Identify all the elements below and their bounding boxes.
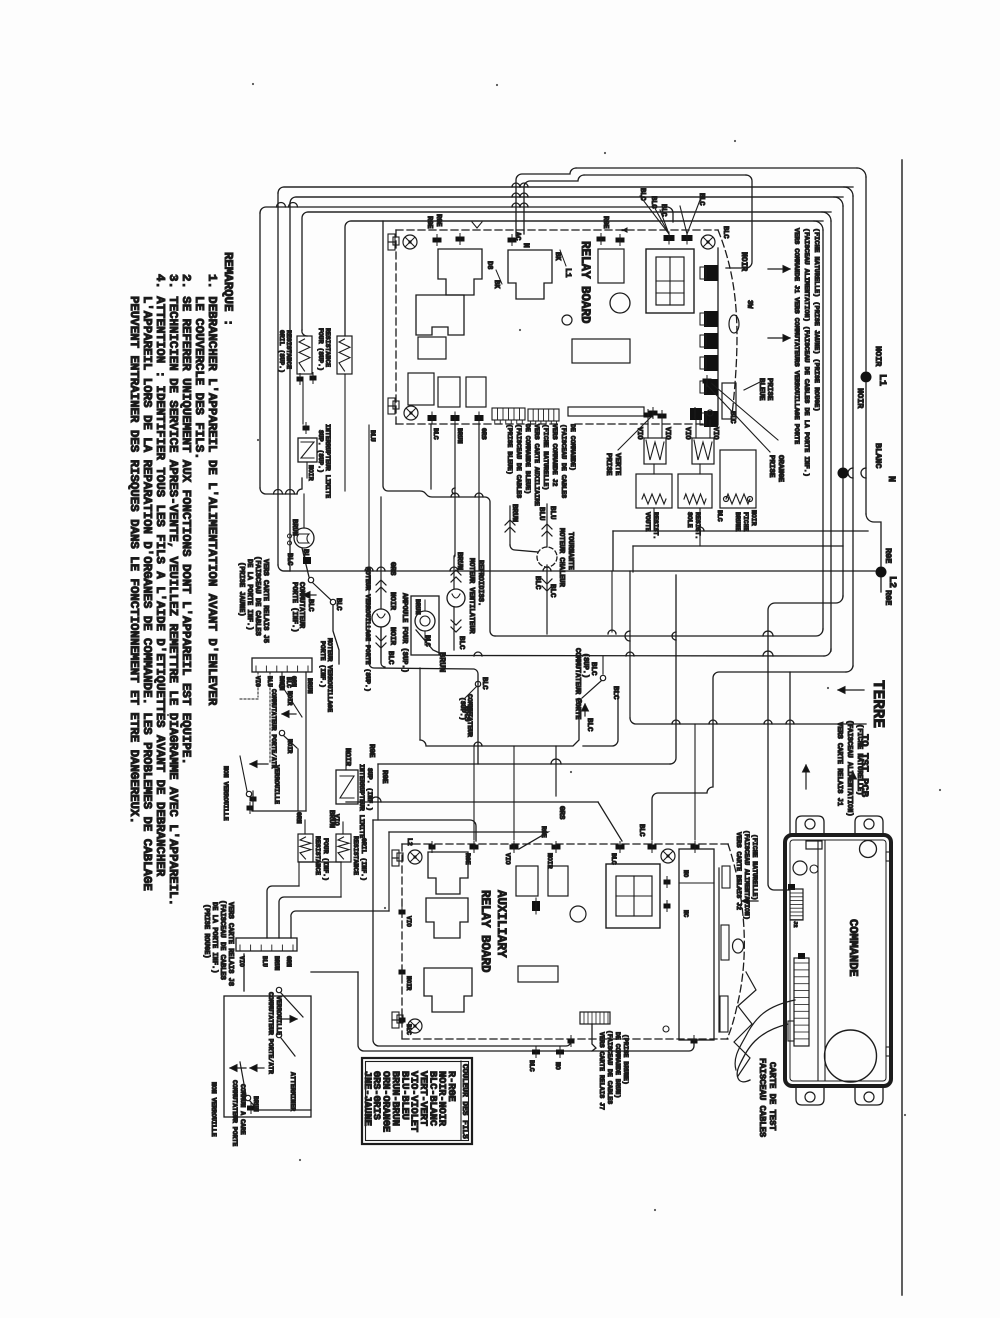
svg-text:RESISTANCE: RESISTANCE xyxy=(314,836,321,875)
svg-text:NON VERROUILLE: NON VERROUILLE xyxy=(222,766,229,821)
svg-text:L2: L2 xyxy=(406,838,413,846)
svg-text:BLC: BLC xyxy=(480,677,488,690)
svg-text:NOIR: NOIR xyxy=(739,252,748,271)
svg-text:BLC: BLC xyxy=(728,411,736,424)
svg-text:BLC: BLC xyxy=(285,553,293,566)
svg-text:NOIR: NOIR xyxy=(286,739,293,754)
svg-text:BLU: BLU xyxy=(261,956,268,967)
svg-text:VOUTE: VOUTE xyxy=(644,512,651,532)
svg-text:VERROUILLE: VERROUILLE xyxy=(273,765,280,804)
svg-text:BLC: BLC xyxy=(432,428,439,440)
svg-text:MOTEUR VERROUILLAGE PORTE (SUP: MOTEUR VERROUILLAGE PORTE (SUP.) xyxy=(364,567,371,692)
svg-text:(FAISCEAU ALIMENTATION) (FAISC: (FAISCEAU ALIMENTATION) (FAISCEAU DE CAB… xyxy=(802,228,810,477)
svg-text:COMMUTATEUR PORTE/ATR: COMMUTATEUR PORTE/ATR xyxy=(270,689,277,769)
svg-text:RGE: RGE xyxy=(434,214,442,227)
svg-text:(FAISCEAU DE CABLES: (FAISCEAU DE CABLES xyxy=(606,1030,613,1104)
svg-text:FOUR (SUP.): FOUR (SUP.) xyxy=(317,328,324,371)
svg-text:SUP. (INF.): SUP. (INF.) xyxy=(366,768,373,811)
svg-text:L1: L1 xyxy=(563,268,572,278)
svg-text:BRUN: BRUN xyxy=(306,678,313,694)
svg-text:VERS CARTE AUXILIAIRE: VERS CARTE AUXILIAIRE xyxy=(533,424,540,506)
svg-text:(FAISCEAU ALIMENTATION): (FAISCEAU ALIMENTATION) xyxy=(743,830,750,920)
svg-text:GRS: GRS xyxy=(388,562,396,576)
svg-text:MOTEUR VENTILATEUR: MOTEUR VENTILATEUR xyxy=(467,558,475,634)
svg-text:L1: L1 xyxy=(876,374,887,386)
svg-text:N: N xyxy=(885,476,896,482)
svg-text:BRUN: BRUN xyxy=(273,956,280,971)
svg-text:BRUN: BRUN xyxy=(456,428,463,444)
svg-text:JNE-JAUNE: JNE-JAUNE xyxy=(361,1071,372,1126)
svg-text:VIO: VIO xyxy=(663,427,671,440)
svg-text:RESISTANCE: RESISTANCE xyxy=(285,330,292,369)
svg-text:MOTEUR CHALEUR: MOTEUR CHALEUR xyxy=(557,528,565,588)
svg-text:VERTE: VERTE xyxy=(613,453,621,476)
svg-text:VERROUILLE: VERROUILLE xyxy=(275,996,282,1035)
svg-text:RELAY BOARD: RELAY BOARD xyxy=(478,890,492,973)
svg-text:NOIR: NOIR xyxy=(405,976,412,991)
svg-text:DE LA PORTE INF.): DE LA PORTE INF.) xyxy=(245,559,253,630)
svg-text:NO: NO xyxy=(682,870,689,878)
svg-text:FAISCEAU CABLES: FAISCEAU CABLES xyxy=(757,1058,767,1137)
svg-text:COMMANDE: COMMANDE xyxy=(846,919,860,977)
svg-text:(PRISE JAUNE): (PRISE JAUNE) xyxy=(237,562,245,617)
svg-text:BLC: BLC xyxy=(405,1024,412,1035)
svg-text:3W: 3W xyxy=(745,300,753,309)
svg-text:BLC: BLC xyxy=(721,226,729,239)
svg-text:PRISE: PRISE xyxy=(604,453,612,476)
svg-text:RELAY BOARD: RELAY BOARD xyxy=(578,241,592,324)
svg-text:DE COMMANDE): DE COMMANDE) xyxy=(569,424,576,471)
svg-text:BLC: BLC xyxy=(589,662,597,676)
svg-text:GRN: GRN xyxy=(295,812,302,824)
svg-text:VIO: VIO xyxy=(711,427,719,440)
svg-text:PRISE: PRISE xyxy=(765,378,773,401)
svg-text:NOIR: NOIR xyxy=(873,346,883,367)
svg-text:BLC: BLC xyxy=(548,584,556,598)
svg-text:INTERRUPTEUR LIMITE: INTERRUPTEUR LIMITE xyxy=(358,764,365,838)
svg-text:PORTE (INF.): PORTE (INF.) xyxy=(319,641,326,688)
svg-text:2. SE REFERER UNIQUEMENT AUX: 2. SE REFERER UNIQUEMENT AUX FONCTIONS D… xyxy=(179,274,193,765)
svg-text:GRIL (SUP.): GRIL (SUP.) xyxy=(278,330,285,373)
svg-text:BLU: BLU xyxy=(369,430,376,442)
svg-text:GRS: GRS xyxy=(557,806,565,820)
svg-text:COMMUTATEUR PORTE: COMMUTATEUR PORTE xyxy=(231,1080,238,1146)
svg-text:NOIR: NOIR xyxy=(343,748,351,767)
svg-text:BRUN: BRUN xyxy=(455,552,463,570)
svg-text:(SUP.): (SUP.) xyxy=(581,653,589,678)
svg-text:1. DEBRANCHER L'APPAREIL DE L: 1. DEBRANCHER L'APPAREIL DE L'ALIMENTATI… xyxy=(205,274,219,706)
svg-text:BLC: BLC xyxy=(610,853,617,865)
svg-text:BRUN: BRUN xyxy=(414,599,421,615)
svg-text:TOURNANTE: TOURNANTE xyxy=(566,532,574,570)
svg-text:NOIR: NOIR xyxy=(388,592,396,611)
svg-text:BLC: BLC xyxy=(306,599,314,612)
svg-text:3. TECHNICIEN DE SERVICE APRE: 3. TECHNICIEN DE SERVICE APRES-VENTE, VE… xyxy=(166,274,180,906)
svg-text:BLC: BLC xyxy=(285,677,292,688)
svg-text:(FAISCEAU ALIMENTATION): (FAISCEAU ALIMENTATION) xyxy=(845,720,853,817)
svg-text:FOUR (INF.): FOUR (INF.) xyxy=(322,838,329,881)
svg-text:GRIL (INF.): GRIL (INF.) xyxy=(360,838,367,881)
svg-text:INTERRUPTEUR LIMITE: INTERRUPTEUR LIMITE xyxy=(324,424,331,498)
svg-text:GRS: GRS xyxy=(480,428,487,440)
svg-text:RESISTANCE: RESISTANCE xyxy=(324,328,331,367)
svg-text:RGE: RGE xyxy=(883,590,893,605)
svg-text:BLANC: BLANC xyxy=(873,443,883,469)
svg-text:REFROIDISS.: REFROIDISS. xyxy=(476,560,484,606)
svg-text:VERS CARTE RELAIS J7: VERS CARTE RELAIS J7 xyxy=(598,1032,605,1110)
svg-text:RGE: RGE xyxy=(540,826,547,838)
svg-text:COMMUTATEUR PORTE/ATR: COMMUTATEUR PORTE/ATR xyxy=(267,992,274,1074)
svg-text:GRN: GRN xyxy=(285,956,292,967)
svg-text:FICHE: FICHE xyxy=(742,512,749,532)
svg-text:DE LA PORTE INF.): DE LA PORTE INF.) xyxy=(210,902,218,973)
svg-text:PRISE: PRISE xyxy=(767,455,775,478)
svg-text:DE COMMANDE BRUN): DE COMMANDE BRUN) xyxy=(614,1032,621,1098)
svg-text:NOIR: NOIR xyxy=(388,627,396,646)
svg-text:BLC: BLC xyxy=(334,598,342,611)
svg-text:J2: J2 xyxy=(792,921,799,928)
svg-text:RGE: RGE xyxy=(425,216,433,229)
svg-text:RGE: RGE xyxy=(601,216,609,229)
svg-text:LE COUVERCLE DES FILS.: LE COUVERCLE DES FILS. xyxy=(192,296,206,460)
svg-text:RGE: RGE xyxy=(367,744,375,758)
svg-text:TERRE: TERRE xyxy=(869,680,887,728)
svg-text:PORTE (INF.): PORTE (INF.) xyxy=(290,582,298,632)
svg-text:ATTERMINER: ATTERMINER xyxy=(289,1072,296,1111)
svg-text:(FAISCEAU DE CABLES: (FAISCEAU DE CABLES xyxy=(560,424,567,498)
svg-text:AUXILIARY: AUXILIARY xyxy=(494,890,508,958)
svg-text:BLU: BLU xyxy=(537,507,545,521)
svg-text:BK: BK xyxy=(492,280,500,289)
svg-text:DE COMMANDE BLEUE): DE COMMANDE BLEUE) xyxy=(524,424,531,494)
svg-text:BK: BK xyxy=(553,252,561,261)
svg-text:VIO: VIO xyxy=(405,916,412,927)
svg-text:(FICHE NATURELLE) (PRISE JAUN: (FICHE NATURELLE) (PRISE JAUNE) (PRISE R… xyxy=(812,228,820,412)
svg-text:COMMUTATEUR PORTE: COMMUTATEUR PORTE xyxy=(573,648,581,719)
svg-text:(FAISCEAU DE CABLES: (FAISCEAU DE CABLES xyxy=(218,900,226,980)
svg-text:ORANGE: ORANGE xyxy=(776,455,784,483)
svg-text:BRUN: BRUN xyxy=(290,519,298,536)
svg-text:BRUN: BRUN xyxy=(437,652,447,672)
svg-text:Y: Y xyxy=(619,228,627,233)
svg-text:NC: NC xyxy=(682,910,689,918)
svg-text:CARTE DE TEST: CARTE DE TEST xyxy=(767,1062,777,1131)
svg-text:PEUVENT ENTRAINER DES RISQUES: PEUVENT ENTRAINER DES RISQUES DANS LE FO… xyxy=(127,296,141,824)
svg-text:RESIST.: RESIST. xyxy=(652,512,659,539)
svg-text:BRUN: BRUN xyxy=(252,1096,259,1112)
svg-text:(FICHE NATURELLE): (FICHE NATURELLE) xyxy=(751,834,758,900)
svg-text:L2: L2 xyxy=(886,576,897,588)
svg-text:NOIR: NOIR xyxy=(855,388,865,409)
svg-text:RGE: RGE xyxy=(883,548,893,563)
svg-text:NOIR: NOIR xyxy=(286,691,293,706)
svg-text:NOIR: NOIR xyxy=(307,465,314,481)
svg-text:SUP. (SUP.): SUP. (SUP.) xyxy=(317,430,324,473)
svg-text:VERS CARTE RELAIS J1: VERS CARTE RELAIS J1 xyxy=(835,722,843,806)
svg-text:D8: D8 xyxy=(485,261,493,269)
svg-text:(PRISE BRUNE): (PRISE BRUNE) xyxy=(622,1034,629,1085)
svg-text:RGE: RGE xyxy=(464,853,471,865)
svg-text:VERS CARTE RELAIS J8: VERS CARTE RELAIS J8 xyxy=(226,902,234,986)
svg-text:VERS CARTE RELAIS J2: VERS CARTE RELAIS J2 xyxy=(735,832,742,910)
svg-text:SOLE: SOLE xyxy=(686,512,693,528)
svg-text:BLC: BLC xyxy=(386,651,394,665)
svg-text:VERS COMMANDE J2: VERS COMMANDE J2 xyxy=(551,424,558,487)
svg-text:VERS COMMANDE J1 VERS COMMUTA: VERS COMMANDE J1 VERS COMMUTATEURS VERRO… xyxy=(792,228,800,444)
svg-text:4. ATTENTION : IDENTIFIER TOU: 4. ATTENTION : IDENTIFIER TOUS LES FILS … xyxy=(153,274,167,877)
svg-text:BLC: BLC xyxy=(697,193,705,206)
svg-text:COMMUN A CARE: COMMUN A CARE xyxy=(239,1084,246,1135)
svg-text:BLC: BLC xyxy=(585,718,593,732)
svg-text:GRS: GRS xyxy=(462,706,472,721)
svg-text:VIO: VIO xyxy=(333,814,340,826)
svg-text:NO: NO xyxy=(554,1062,561,1070)
svg-text:BLC: BLC xyxy=(716,510,723,522)
svg-text:MOTEUR VERROUILLAGE: MOTEUR VERROUILLAGE xyxy=(326,638,333,712)
svg-text:(FICHE NATURELLE): (FICHE NATURELLE) xyxy=(542,424,549,490)
svg-text:BLC: BLC xyxy=(649,196,657,209)
svg-text:AMPOULE FOUR (SUP.): AMPOULE FOUR (SUP.) xyxy=(400,593,408,673)
svg-text:(PRISE ROUGE): (PRISE ROUGE) xyxy=(202,904,210,959)
svg-text:RGE: RGE xyxy=(380,770,388,784)
svg-text:REMARQUE :: REMARQUE : xyxy=(221,252,235,326)
svg-text:BLC: BLC xyxy=(638,188,646,201)
svg-text:BLC: BLC xyxy=(637,824,645,837)
svg-text:VIO: VIO xyxy=(683,427,691,440)
svg-text:BLC: BLC xyxy=(457,636,465,650)
svg-text:BLC: BLC xyxy=(528,1060,535,1072)
svg-text:NOIR: NOIR xyxy=(546,853,553,869)
svg-text:NON VERROUILLE: NON VERROUILLE xyxy=(210,1082,217,1137)
svg-text:RESISTANCE: RESISTANCE xyxy=(352,836,359,875)
svg-text:BLC: BLC xyxy=(533,576,541,590)
svg-text:N: N xyxy=(521,243,530,248)
svg-text:(PRISE BLEUE): (PRISE BLEUE) xyxy=(506,424,513,475)
svg-text:AC: AC xyxy=(513,232,521,240)
svg-text:BLU: BLU xyxy=(548,506,556,520)
svg-text:TO TST PCB: TO TST PCB xyxy=(858,734,870,798)
svg-text:NOIR: NOIR xyxy=(750,510,757,526)
svg-text:BLC: BLC xyxy=(659,204,667,217)
svg-text:VERS CARTE RELAIS J5: VERS CARTE RELAIS J5 xyxy=(261,559,269,643)
svg-text:BRUN: BRUN xyxy=(510,504,518,522)
svg-text:BRUNE: BRUNE xyxy=(734,512,741,532)
svg-text:(FAISCEAU DE CABLES: (FAISCEAU DE CABLES xyxy=(515,424,522,498)
svg-text:(FAISCEAU DE CABLES: (FAISCEAU DE CABLES xyxy=(253,556,261,636)
svg-text:L'APPAREIL LORS DE LA REPARATI: L'APPAREIL LORS DE LA REPARATION D'ORGAN… xyxy=(140,296,154,891)
svg-text:VIO: VIO xyxy=(504,853,511,865)
